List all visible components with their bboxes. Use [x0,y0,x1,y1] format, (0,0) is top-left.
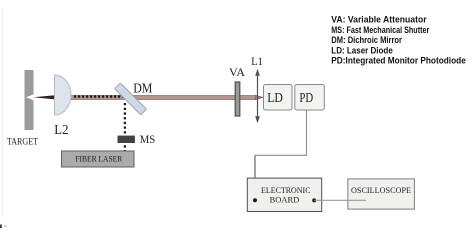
mechanical shutter MS [118,136,135,143]
target plate [25,70,34,130]
junction dot left [253,198,257,202]
oscilloscope box [348,179,415,209]
fiber laser box [62,151,135,167]
lens L2 [55,75,72,115]
svg-text:LD: LD [267,90,283,105]
dashed beam from dichroic mirror down to fiber laser [124,103,126,151]
svg-text:FIBER LASER: FIBER LASER [75,155,122,164]
beam focusing tip into LD [256,95,264,100]
dichroic mirror DM [115,83,147,115]
scan artifact bottom-left mark [0,225,2,229]
svg-text:PD: PD [299,90,313,105]
svg-text:LD: Laser Diode: LD: Laser Diode [331,45,393,55]
beam main band from lens L2 to variable attenuator [60,95,256,100]
focused beam cone from target to lens L2 [33,95,55,99]
electronic board box [247,178,321,211]
svg-text:BOARD: BOARD [270,196,300,205]
wire from electronic board to oscilloscope [314,199,366,201]
lens L1 symbol (double arrow) [255,69,260,123]
svg-text:L1: L1 [251,54,262,68]
svg-text:L2: L2 [54,123,68,138]
svg-text:OSCILLOSCOPE: OSCILLOSCOPE [351,186,411,195]
svg-text:VA: VA [229,65,245,79]
target notch [26,94,34,100]
svg-text:ELECTRONIC: ELECTRONIC [261,186,311,195]
scan artifact left edge line [2,8,4,218]
wire from PD to electronic board [255,110,307,155]
svg-text:DM: Dichroic Mirror: DM: Dichroic Mirror [331,35,402,45]
variable attenuator VA [235,82,240,116]
svg-text:MS: Fast Mechanical Shutter: MS: Fast Mechanical Shutter [331,25,429,35]
wire segment down into electronic board [254,155,256,198]
svg-text:MS: MS [140,132,156,146]
dashed beam from lens L2 to dichroic mirror [74,95,123,97]
photodiode PD box [295,85,325,111]
laser diode LD box [264,85,293,111]
svg-text:PD:Integrated Monitor Photodio: PD:Integrated Monitor Photodiode [331,56,466,66]
svg-text:DM: DM [133,81,152,96]
junction dot right [312,198,316,202]
svg-text:TARGET: TARGET [7,137,38,147]
svg-text:VA: Variable Attenuator: VA: Variable Attenuator [331,15,427,25]
